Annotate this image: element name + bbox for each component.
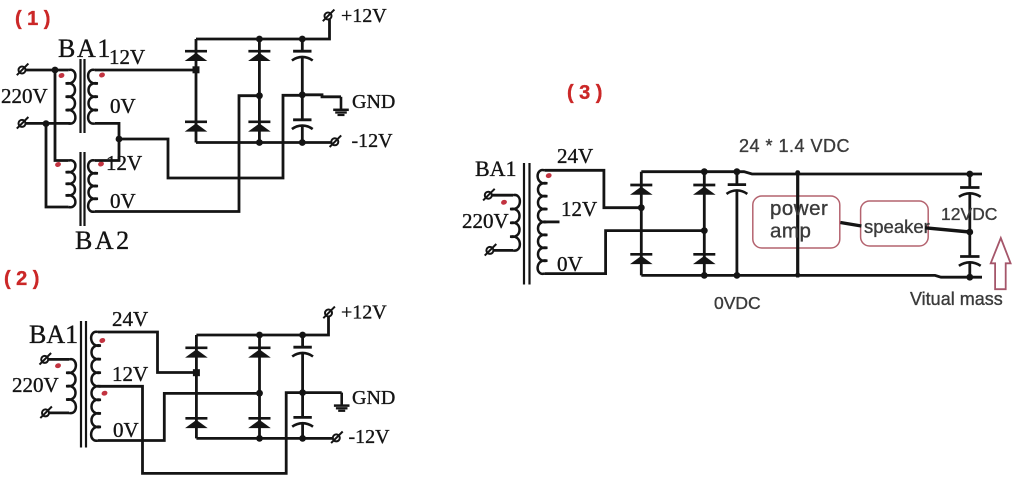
svg-text:power: power	[770, 197, 828, 220]
svg-text:12V: 12V	[109, 45, 145, 69]
svg-text:0V: 0V	[110, 189, 136, 213]
svg-text:GND: GND	[352, 91, 395, 113]
svg-text:12V: 12V	[561, 197, 597, 221]
svg-text:(2): (2)	[4, 268, 45, 290]
svg-text:24V: 24V	[557, 144, 593, 168]
svg-text:BA2: BA2	[75, 226, 132, 255]
svg-text:24 * 1.4 VDC: 24 * 1.4 VDC	[739, 136, 850, 156]
svg-text:GND: GND	[352, 387, 395, 409]
svg-text:-12V: -12V	[352, 130, 394, 152]
svg-text:Vitual mass: Vitual mass	[910, 289, 1003, 309]
svg-text:0V: 0V	[557, 252, 583, 276]
svg-text:0V: 0V	[113, 418, 139, 442]
svg-text:amp: amp	[770, 220, 811, 243]
svg-text:BA1: BA1	[475, 156, 517, 181]
svg-text:12V: 12V	[112, 362, 148, 386]
svg-text:+12V: +12V	[341, 5, 387, 27]
svg-text:220V: 220V	[462, 209, 509, 233]
svg-text:12VDC: 12VDC	[941, 204, 997, 224]
svg-text:220V: 220V	[1, 84, 48, 108]
svg-text:(1): (1)	[15, 8, 56, 30]
svg-text:0VDC: 0VDC	[714, 293, 761, 313]
svg-text:0V: 0V	[110, 94, 136, 118]
svg-text:BA1: BA1	[29, 320, 78, 349]
svg-text:BA1: BA1	[58, 34, 112, 63]
svg-text:-12V: -12V	[349, 426, 391, 448]
svg-text:+12V: +12V	[341, 302, 387, 324]
svg-text:12V: 12V	[106, 151, 142, 175]
svg-text:speaker: speaker	[864, 216, 930, 237]
svg-text:220V: 220V	[12, 373, 59, 397]
svg-text:24V: 24V	[112, 307, 148, 331]
svg-text:(3): (3)	[567, 82, 608, 104]
